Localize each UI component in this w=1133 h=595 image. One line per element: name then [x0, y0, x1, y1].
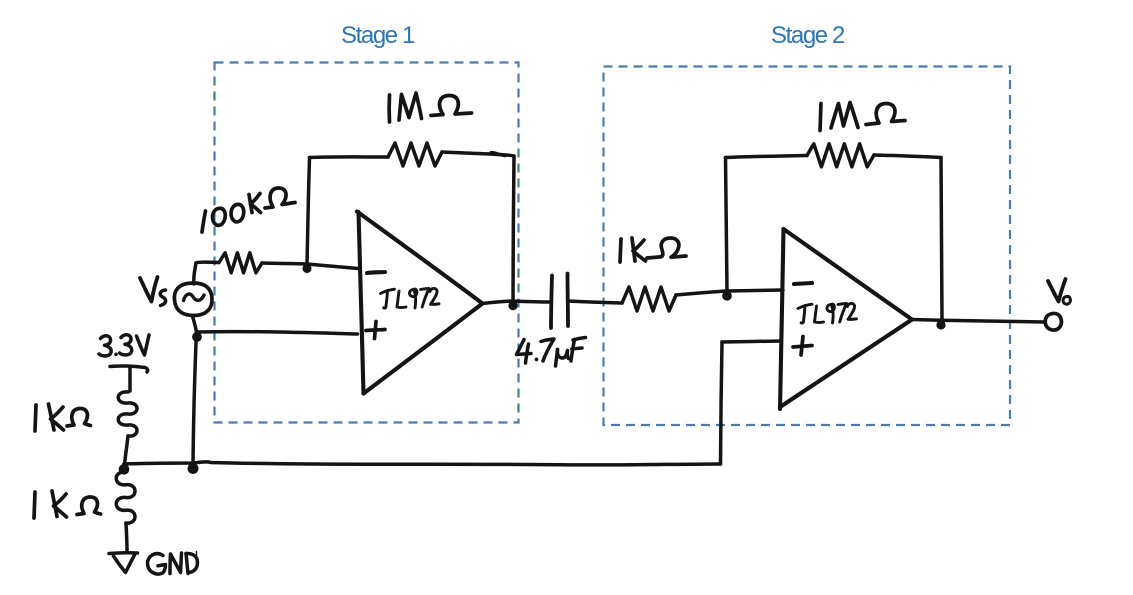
svg-text:Stage 1: Stage 1: [341, 22, 415, 49]
svg-text:Stage 2: Stage 2: [771, 22, 845, 49]
